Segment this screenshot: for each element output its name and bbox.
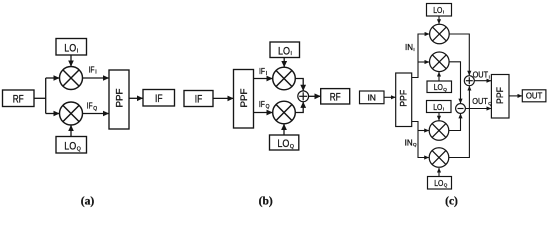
svg-text:Q: Q xyxy=(266,104,270,110)
svg-text:I: I xyxy=(443,10,444,15)
svg-text:Q: Q xyxy=(93,106,97,112)
svg-text:Q: Q xyxy=(77,147,81,153)
svg-text:IF: IF xyxy=(87,101,93,111)
svg-text:LO: LO xyxy=(434,178,444,188)
svg-text:I: I xyxy=(443,107,444,112)
svg-text:PPF: PPF xyxy=(399,89,409,107)
svg-text:IN: IN xyxy=(405,43,413,52)
svg-text:PPF: PPF xyxy=(239,88,250,107)
svg-text:IN: IN xyxy=(367,92,376,102)
svg-text:IF: IF xyxy=(195,93,203,105)
svg-text:LO: LO xyxy=(64,141,76,153)
svg-text:Q: Q xyxy=(444,183,448,188)
svg-text:(b): (b) xyxy=(259,196,273,208)
svg-text:(c): (c) xyxy=(445,196,458,208)
svg-text:Q: Q xyxy=(413,142,417,147)
svg-text:Q: Q xyxy=(290,144,294,150)
svg-text:(a): (a) xyxy=(81,196,95,208)
svg-text:LO: LO xyxy=(433,102,443,112)
svg-text:I: I xyxy=(489,75,490,80)
svg-text:Q: Q xyxy=(443,87,447,92)
svg-text:RF: RF xyxy=(330,91,341,103)
svg-text:RF: RF xyxy=(13,93,24,105)
svg-text:LO: LO xyxy=(278,45,290,57)
svg-text:IN: IN xyxy=(405,138,413,147)
svg-text:I: I xyxy=(95,69,96,75)
svg-text:OUT: OUT xyxy=(526,91,543,101)
svg-text:IF: IF xyxy=(89,65,95,75)
svg-text:Q: Q xyxy=(488,101,492,106)
svg-text:OUT: OUT xyxy=(473,71,489,80)
svg-text:IF: IF xyxy=(259,66,265,76)
svg-text:OUT: OUT xyxy=(472,97,488,106)
svg-text:IF: IF xyxy=(155,93,163,105)
svg-text:LO: LO xyxy=(64,43,76,55)
svg-text:I: I xyxy=(413,47,414,52)
svg-text:LO: LO xyxy=(277,138,289,150)
svg-text:LO: LO xyxy=(433,5,443,15)
svg-text:PPF: PPF xyxy=(495,86,505,104)
svg-text:I: I xyxy=(77,48,78,54)
svg-text:PPF: PPF xyxy=(114,88,125,107)
svg-text:LO: LO xyxy=(434,82,444,92)
svg-text:I: I xyxy=(291,51,292,57)
svg-text:IF: IF xyxy=(259,99,265,109)
svg-text:I: I xyxy=(266,71,267,77)
